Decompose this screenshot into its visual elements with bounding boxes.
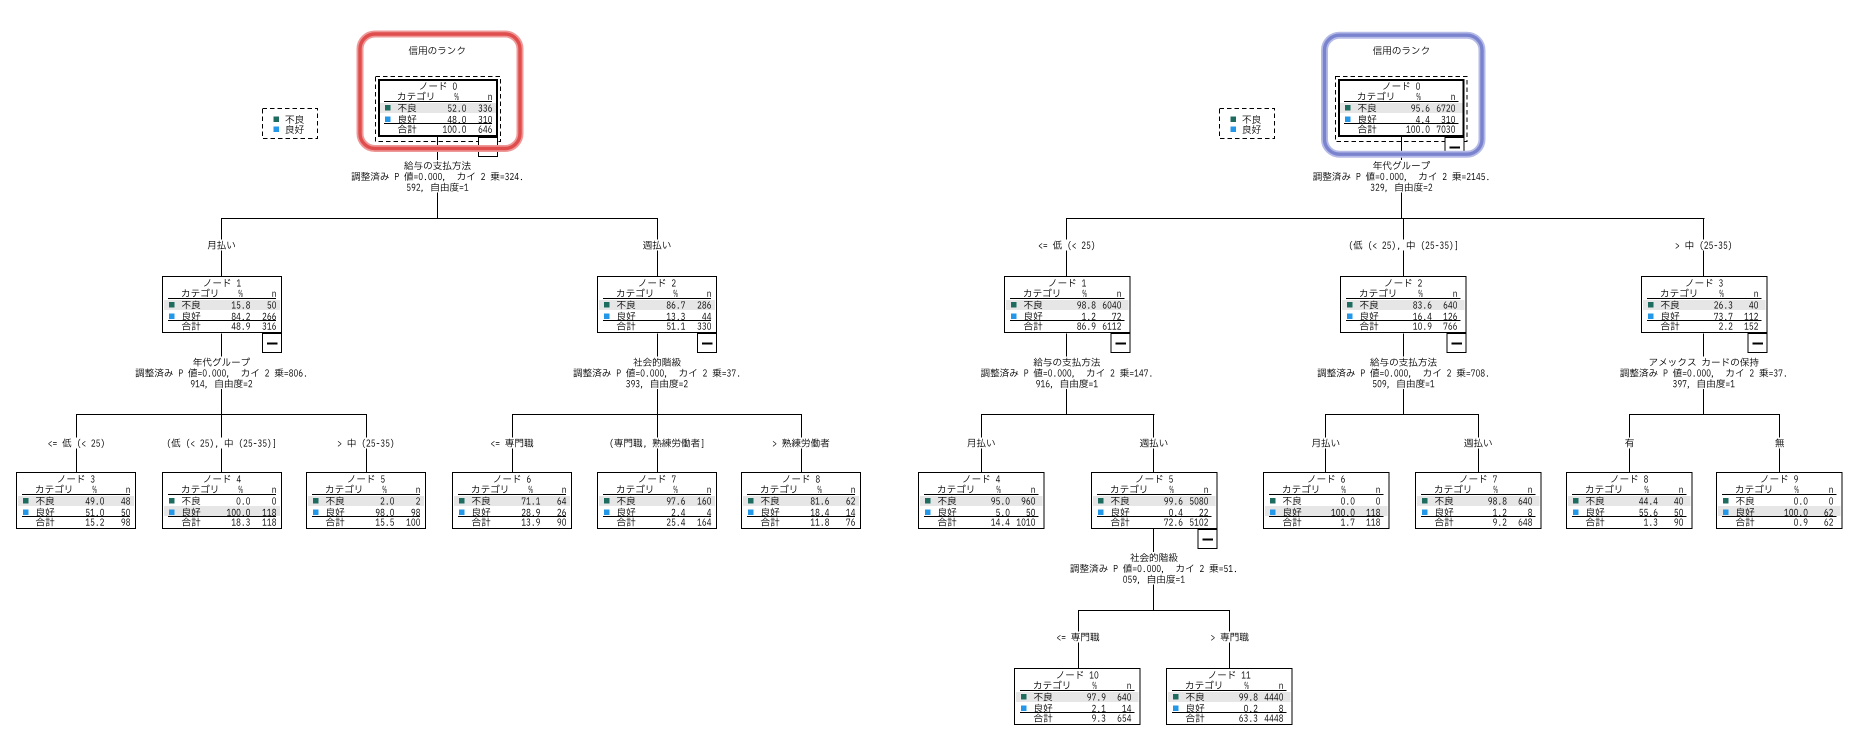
- ノード 5: [1092, 473, 1218, 549]
- wire: right node2 children horizontal: [1326, 414, 1479, 416]
- ノード 11: [1167, 669, 1293, 725]
- edge label <=低 right: [1039, 241, 1094, 250]
- wire: left node2 children horizontal: [512, 414, 802, 416]
- ノード 0: [376, 77, 501, 157]
- ノード 7: [1416, 473, 1542, 529]
- ノード 1: [1005, 277, 1131, 353]
- red rounded border (left tree root): [360, 34, 520, 149]
- right legend: [1220, 109, 1275, 139]
- edge label 週払い r1: [1140, 439, 1168, 448]
- wire: right node1 children horizontal: [981, 414, 1154, 416]
- wire: right node to split: [1403, 334, 1405, 357]
- ノード 8: [742, 473, 861, 529]
- wire: left drop to node2: [657, 218, 659, 240]
- wire: right drop level2: [1779, 414, 1781, 438]
- blue rounded border (right tree root): [1325, 35, 1483, 154]
- edge label 月払い r1: [967, 439, 994, 448]
- edge label 有: [1625, 439, 1634, 448]
- wire: left node1 to split: [221, 334, 223, 357]
- ノード 8: [1567, 473, 1693, 529]
- ノード 3: [1642, 277, 1768, 353]
- wire: right node3 children horizontal: [1630, 414, 1781, 416]
- ノード 5: [307, 473, 426, 529]
- split label: left root 給与の支払方法: [352, 161, 523, 192]
- wire: right drop level3: [1078, 610, 1080, 632]
- ノード 7: [598, 473, 717, 529]
- wire: left drop level2: [512, 414, 514, 438]
- wire: right level1 horizontal: [1067, 218, 1704, 220]
- wire: right node to split: [1703, 334, 1705, 357]
- right tree title: [1373, 46, 1429, 55]
- wire: left drop level2: [221, 414, 223, 438]
- split label: left node2 社会的階級: [573, 358, 739, 389]
- edge label (低,中]: [168, 438, 275, 447]
- wire: left root to split: [437, 137, 439, 160]
- edge label <=専門職 r: [1057, 633, 1099, 642]
- wire: right drop level2: [1478, 414, 1480, 438]
- edge label 無: [1775, 438, 1784, 447]
- wire: right drop level2: [1325, 414, 1327, 438]
- edge label 月払い: [208, 241, 235, 250]
- split label: left node1 年代グループ: [136, 358, 307, 389]
- wire: right drop level3: [1229, 610, 1231, 632]
- wire: right node to split: [1066, 334, 1068, 357]
- edge label 月払い r2: [1312, 439, 1339, 448]
- wire: left drop level2: [801, 414, 803, 438]
- wire: left drop to node1: [221, 218, 223, 240]
- wire: right node5 children horizontal: [1078, 610, 1230, 612]
- ノード 2: [1341, 277, 1467, 353]
- ノード 9: [1717, 473, 1843, 529]
- ノード 4: [163, 473, 282, 529]
- edge label (専門職,熟練労働者]: [611, 438, 704, 448]
- ノード 1: [163, 277, 282, 353]
- edge label 週払い r2: [1464, 439, 1492, 448]
- edge label 週払い: [643, 241, 671, 250]
- edge label >専門職 r: [1211, 633, 1248, 642]
- wire: right drop level1: [1066, 218, 1068, 240]
- split label: right node3 アメックス: [1620, 358, 1786, 389]
- left legend: [263, 109, 318, 139]
- wire: right drop level2: [1153, 414, 1155, 438]
- wire: left drop level2: [366, 414, 368, 438]
- wire: left node2 to split: [657, 334, 659, 357]
- ノード 6: [453, 473, 572, 529]
- wire: right root to split: [1401, 137, 1403, 160]
- edge label <=専門職: [491, 439, 533, 448]
- split label: right node1 給与の支払方法: [981, 358, 1152, 389]
- ノード 4: [919, 473, 1045, 529]
- wire: right drop level2: [981, 414, 983, 438]
- edge label >熟練労働者: [773, 438, 829, 447]
- wire: right node5 to split: [1153, 529, 1155, 552]
- edge label >中 right: [1676, 241, 1731, 250]
- left tree title: [409, 46, 465, 55]
- edge label <=低: [48, 438, 103, 447]
- ノード 2: [598, 277, 717, 353]
- split label: right root 年代グループ: [1313, 161, 1488, 192]
- edge label (低,中] right: [1350, 241, 1457, 250]
- ノード 10: [1015, 669, 1141, 725]
- wire: right drop level1: [1403, 218, 1405, 240]
- wire: right drop level2: [1629, 414, 1631, 438]
- ノード 3: [17, 473, 136, 529]
- edge label >中: [338, 439, 393, 448]
- ノード 0: [1336, 77, 1468, 157]
- split label: right node2 給与の支払方法: [1318, 358, 1489, 389]
- ノード 6: [1264, 473, 1390, 529]
- wire: left level1 horizontal: [222, 218, 658, 220]
- split label: right node5 社会的階級: [1070, 553, 1236, 584]
- wire: right drop level1: [1703, 218, 1705, 240]
- wire: left drop level2: [76, 414, 78, 438]
- wire: left node1 children horizontal: [77, 414, 367, 416]
- wire: left drop level2: [657, 414, 659, 438]
